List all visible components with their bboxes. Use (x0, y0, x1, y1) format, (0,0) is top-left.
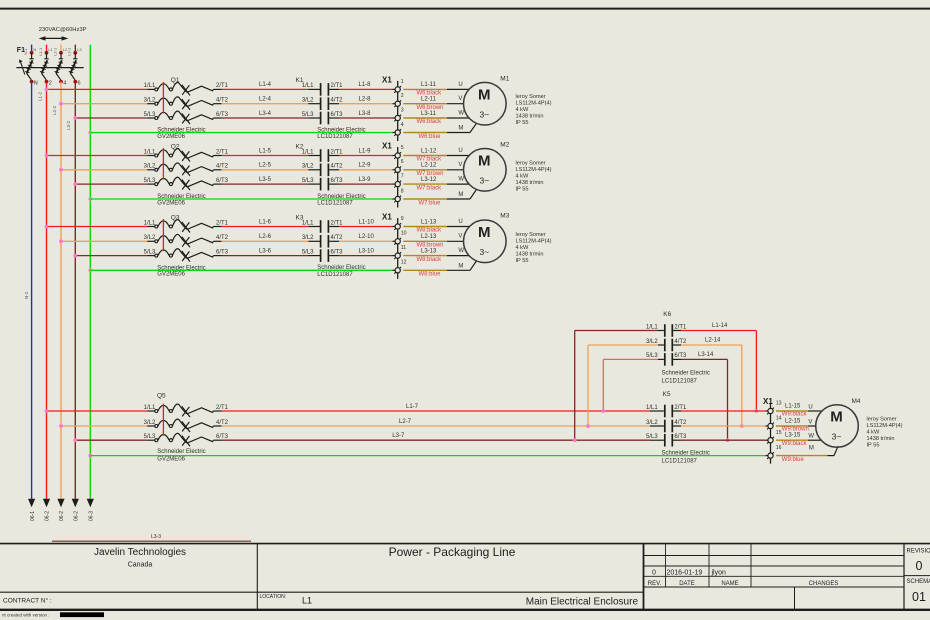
svg-text:2/T1: 2/T1 (674, 405, 687, 411)
svg-text:L1-12: L1-12 (421, 148, 437, 154)
svg-text:10: 10 (401, 231, 407, 237)
svg-text:U: U (458, 219, 462, 225)
svg-text:K1: K1 (296, 77, 304, 84)
wire tap L3 to Q5 (node) (73, 438, 154, 442)
svg-text:L3-5: L3-5 (259, 177, 272, 183)
svg-text:M: M (830, 409, 843, 426)
svg-text:M2: M2 (500, 142, 509, 149)
wire motor M4 PE (W9:blue) (776, 445, 838, 463)
wire L2-8 (329, 97, 395, 104)
circuit breaker Q5 (Schneider GV2ME06) (144, 392, 229, 462)
svg-text:3/L2: 3/L2 (302, 98, 314, 104)
svg-text:V: V (458, 96, 462, 102)
svg-text:3/L2: 3/L2 (144, 420, 156, 426)
svg-text:2: 2 (401, 93, 404, 99)
wire L2-9 (329, 163, 395, 170)
svg-text:L2-8: L2-8 (359, 97, 372, 103)
fused disconnect switch F1 (4-pole) (16, 45, 83, 87)
svg-text:4/T2: 4/T2 (216, 98, 229, 104)
svg-text:L3-2: L3-2 (66, 120, 71, 130)
svg-text:L1-10: L1-10 (359, 219, 375, 225)
svg-text:1438 tr/min: 1438 tr/min (516, 251, 544, 257)
terminal strip X1 (5-8) (382, 142, 404, 208)
svg-text:REVISION: REVISION (907, 549, 930, 555)
wire L3-15 to M4 (W9:black) (776, 434, 821, 447)
wire L1 bus (red, L1-2) (37, 82, 46, 499)
svg-text:L1: L1 (302, 596, 312, 606)
svg-text:GV2ME06: GV2ME06 (157, 200, 185, 206)
svg-text:14: 14 (776, 416, 782, 422)
svg-text:L2-10: L2-10 (359, 234, 375, 240)
svg-text:4/T2: 4/T2 (674, 339, 687, 345)
svg-text:1/L1: 1/L1 (144, 149, 156, 155)
wire tap L1 to Q1 (node) (45, 88, 155, 92)
motor M1 (Leroy Somer 4kW) (464, 76, 552, 127)
wire L1-14 (K6 output) (673, 323, 758, 413)
svg-text:4/T2: 4/T2 (216, 420, 229, 426)
wire motor PE (W6:blue) (403, 123, 476, 140)
svg-text:M3: M3 (500, 213, 509, 220)
svg-text:jlyon: jlyon (711, 570, 727, 577)
svg-text:X1: X1 (382, 213, 392, 222)
wire PE to terminal 4 (green) (88, 131, 395, 135)
wire L2-14 (K6 output) (673, 338, 744, 428)
svg-text:3/L2: 3/L2 (144, 235, 156, 241)
svg-text:4/T2: 4/T2 (331, 164, 344, 170)
svg-text:4: 4 (63, 81, 66, 87)
wire L2-11 (W6:brown) (403, 96, 463, 111)
contactor K5 (Schneider LC1D121087) (646, 391, 710, 465)
wires L1-7 / L2-7 / L3-7 (Q5 to K5) (222, 404, 664, 440)
svg-text:06-1: 06-1 (30, 511, 36, 521)
svg-text:M: M (458, 264, 463, 270)
svg-text:K3: K3 (296, 214, 304, 221)
wire L3 bus (maroon, L3-2) (66, 82, 75, 499)
wire K6 input pole1 from L3 (maroon) (573, 331, 664, 443)
svg-text:1/L1: 1/L1 (646, 324, 658, 330)
svg-text:Q3: Q3 (171, 214, 180, 221)
svg-text:16: 16 (776, 445, 782, 451)
svg-text:3~: 3~ (479, 109, 489, 119)
wire L1-13 (W8:black) (403, 219, 469, 234)
circuit breaker Q1 (Schneider GV2ME06) (144, 77, 229, 140)
svg-text:L1-13: L1-13 (421, 219, 437, 225)
terminal strip X1 (13-16) (763, 397, 782, 464)
svg-text:2/T1: 2/T1 (331, 83, 344, 89)
svg-text:1/L1: 1/L1 (144, 405, 156, 411)
svg-text:Canada: Canada (128, 562, 153, 569)
svg-text:Main Electrical Enclosure: Main Electrical Enclosure (526, 597, 639, 608)
svg-text:IP 55: IP 55 (516, 258, 529, 264)
svg-text:Schneider Electric: Schneider Electric (662, 370, 710, 376)
svg-text:2/T1: 2/T1 (216, 149, 229, 155)
wire tap L2 to Q5 (node) (59, 424, 155, 428)
svg-text:4/T2: 4/T2 (331, 235, 344, 241)
svg-text:GV2ME06: GV2ME06 (157, 457, 185, 463)
svg-text:X1: X1 (763, 397, 773, 406)
svg-text:1438 tr/min: 1438 tr/min (516, 180, 544, 186)
svg-text:8: 8 (401, 188, 404, 194)
svg-text:L3-8: L3-8 (359, 111, 372, 117)
svg-text:3/L2: 3/L2 (646, 339, 658, 345)
wire tap L2 to Q2 (node) (59, 168, 155, 172)
svg-text:leroy Somer: leroy Somer (516, 160, 546, 166)
svg-text:Q2: Q2 (171, 143, 180, 150)
svg-text:REV.: REV. (648, 581, 662, 587)
svg-text:LC1D121087: LC1D121087 (317, 201, 353, 207)
svg-text:5/L3: 5/L3 (144, 249, 156, 255)
svg-text:6/T3: 6/T3 (216, 249, 229, 255)
svg-text:1438 tr/min: 1438 tr/min (867, 436, 895, 442)
svg-text:M: M (478, 86, 491, 103)
svg-text:U: U (808, 404, 812, 410)
svg-text:1438 tr/min: 1438 tr/min (516, 114, 544, 120)
wire L3-11 (W6:black) (403, 110, 469, 125)
wire PE bus (green) (89, 45, 91, 499)
circuit breaker Q3 (Schneider GV2ME06) (144, 214, 229, 277)
svg-text:L2-12: L2-12 (421, 163, 437, 169)
wire L3-13 (W8:black) (403, 248, 469, 263)
svg-text:V: V (458, 234, 462, 240)
svg-text:LC1D121087: LC1D121087 (662, 458, 698, 464)
svg-text:LC1D121087: LC1D121087 (317, 134, 353, 140)
svg-text:nt created with version :: nt created with version : (2, 613, 50, 618)
svg-text:N-1: N-1 (23, 48, 28, 55)
svg-text:5/L3: 5/L3 (144, 112, 156, 118)
svg-text:L2-13: L2-13 (421, 234, 437, 240)
svg-text:W: W (458, 248, 464, 254)
svg-text:11: 11 (401, 245, 406, 251)
svg-text:W6:blue: W6:blue (419, 134, 442, 140)
svg-text:M: M (458, 192, 463, 198)
svg-text:4 kW: 4 kW (516, 173, 529, 179)
wire motor PE (W7:blue) (403, 189, 476, 206)
svg-text:1/L1: 1/L1 (144, 220, 156, 226)
svg-text:L2-15: L2-15 (785, 419, 801, 425)
svg-text:15: 15 (776, 430, 782, 436)
svg-text:5/L3: 5/L3 (144, 178, 156, 184)
svg-text:5/L3: 5/L3 (144, 434, 156, 440)
wire L2-4 (222, 97, 321, 104)
svg-text:leroy Somer: leroy Somer (867, 417, 897, 423)
svg-text:W8:black: W8:black (417, 228, 443, 234)
svg-text:N: N (34, 81, 38, 87)
svg-text:1/L1: 1/L1 (302, 220, 314, 226)
wire L3-8 (329, 111, 395, 118)
svg-text:1/L1: 1/L1 (302, 149, 314, 155)
svg-text:L3-9: L3-9 (359, 177, 372, 183)
svg-text:X1: X1 (382, 75, 392, 84)
svg-text:6/T3: 6/T3 (331, 112, 344, 118)
svg-text:L3-13: L3-13 (421, 248, 437, 254)
wire L3-4 (222, 111, 321, 118)
wire L3-15 (K5 to X1) (673, 433, 801, 441)
svg-text:L1-11: L1-11 (421, 82, 437, 88)
svg-text:4 kW: 4 kW (867, 430, 880, 436)
wire tap L3 to Q2 (node) (73, 182, 154, 186)
svg-text:W: W (808, 434, 814, 440)
svg-text:LC1D121087: LC1D121087 (662, 378, 698, 384)
svg-text:L2-5: L2-5 (259, 163, 272, 169)
wire K6 input pole3 from L1 (red) (601, 359, 664, 413)
svg-text:L3-3: L3-3 (151, 534, 161, 540)
svg-text:7: 7 (401, 174, 404, 180)
wire L1-6 (222, 219, 321, 226)
svg-text:L3-10: L3-10 (359, 248, 375, 254)
svg-text:LS112M-4P(4): LS112M-4P(4) (867, 423, 903, 429)
svg-text:N-2: N-2 (24, 291, 29, 299)
svg-text:2/T1: 2/T1 (216, 220, 229, 226)
svg-text:L1-14: L1-14 (712, 323, 728, 329)
svg-text:U: U (458, 82, 462, 88)
svg-text:6/T3: 6/T3 (674, 434, 687, 440)
svg-text:K6: K6 (663, 311, 671, 318)
svg-text:L2-7: L2-7 (399, 419, 412, 425)
svg-text:4/T2: 4/T2 (216, 235, 229, 241)
wire L2-13 (W8:brown) (403, 234, 463, 249)
svg-text:L1-2: L1-2 (37, 91, 42, 101)
svg-text:Q5: Q5 (157, 392, 166, 399)
svg-text:NAME: NAME (721, 581, 738, 587)
motor M4 (Leroy Somer 4kW) (816, 398, 903, 449)
svg-text:SCHEMATIC: SCHEMATIC (907, 579, 930, 585)
contactor K3 (Schneider LC1D121087) (296, 214, 366, 278)
svg-text:L2-9: L2-9 (359, 163, 372, 169)
svg-text:W: W (458, 110, 464, 116)
svg-text:U: U (458, 148, 462, 154)
svg-text:13: 13 (776, 401, 782, 407)
wire tap L2 to Q3 (node) (59, 239, 155, 243)
svg-text:Q1: Q1 (171, 77, 180, 84)
svg-text:6: 6 (78, 81, 81, 87)
contactor K2 (Schneider LC1D121087) (296, 143, 366, 206)
svg-text:L1-4: L1-4 (259, 82, 272, 88)
svg-text:6/T3: 6/T3 (331, 249, 344, 255)
svg-text:3/L2: 3/L2 (646, 420, 658, 426)
svg-text:L3-7: L3-7 (392, 433, 405, 439)
svg-text:3~: 3~ (832, 432, 842, 442)
svg-text:LC1D121087: LC1D121087 (317, 272, 353, 278)
svg-text:W8:blue: W8:blue (419, 272, 442, 278)
svg-text:X1: X1 (382, 142, 392, 151)
motor M3 (Leroy Somer 4kW) (464, 213, 552, 264)
wire L1-9 (329, 148, 395, 155)
svg-text:L3-6: L3-6 (259, 248, 272, 254)
svg-text:W: W (458, 177, 464, 183)
svg-text:5/L3: 5/L3 (646, 353, 658, 359)
svg-text:L2-2: L2-2 (52, 105, 57, 115)
svg-text:M: M (458, 126, 463, 132)
wire L1-15 (K5 to X1) (673, 404, 801, 412)
wire L1-10 (329, 219, 395, 226)
svg-text:6/T3: 6/T3 (331, 178, 344, 184)
svg-text:01: 01 (912, 590, 926, 604)
svg-text:4 kW: 4 kW (516, 107, 529, 113)
svg-text:9: 9 (401, 216, 404, 222)
svg-text:L2-6: L2-6 (259, 234, 272, 240)
contactor K1 (Schneider LC1D121087) (296, 77, 366, 140)
wire L2-15 (K5 to X1) (673, 419, 801, 427)
wire L1-5 (222, 148, 321, 155)
svg-text:K5: K5 (663, 391, 671, 398)
svg-text:W7:black: W7:black (417, 185, 443, 191)
wire L1-11 (W6:black) (403, 82, 469, 97)
wire L3-3 (bottom) (52, 534, 251, 541)
svg-text:2016-01-19: 2016-01-19 (667, 570, 703, 577)
svg-text:2/T1: 2/T1 (331, 149, 344, 155)
svg-text:1/L1: 1/L1 (302, 83, 314, 89)
wire L1-8 (329, 82, 395, 89)
wire L2-6 (222, 234, 321, 241)
svg-text:W7:blue: W7:blue (419, 200, 442, 206)
wire L3-9 (329, 177, 395, 184)
svg-text:N: N (33, 47, 36, 52)
svg-text:L1-5: L1-5 (259, 148, 272, 154)
svg-text:L2-11: L2-11 (421, 97, 437, 103)
svg-text:LS112M-4P(4): LS112M-4P(4) (516, 238, 552, 244)
svg-text:L3-1: L3-1 (67, 47, 72, 56)
svg-text:M4: M4 (852, 398, 861, 405)
svg-text:3: 3 (401, 107, 404, 113)
svg-text:CHANGES: CHANGES (809, 581, 839, 587)
wire tap L1 to Q2 (node) (45, 154, 155, 158)
wire PE to terminal 16 (green) (88, 454, 768, 458)
svg-text:2/T1: 2/T1 (216, 405, 229, 411)
terminal strip X1 (9-12) (382, 213, 407, 279)
wire L2-15 to M4 (W9:brown) (776, 419, 816, 432)
wire L1-4 (222, 82, 321, 89)
svg-text:2/T1: 2/T1 (674, 324, 687, 330)
svg-text:L1-15: L1-15 (785, 404, 801, 410)
svg-text:M1: M1 (500, 76, 509, 83)
svg-text:6/T3: 6/T3 (216, 178, 229, 184)
svg-text:W9:black: W9:black (782, 441, 808, 447)
svg-text:L3-11: L3-11 (421, 111, 437, 117)
svg-text:Power - Packaging Line: Power - Packaging Line (389, 545, 516, 559)
svg-text:0: 0 (652, 570, 656, 577)
wire N bus (blue, N-2) (24, 82, 32, 499)
wire L3-5 (222, 177, 321, 184)
svg-text:LOCATION:: LOCATION: (260, 594, 287, 600)
wire L3-6 (222, 248, 321, 255)
svg-text:4 kW: 4 kW (516, 245, 529, 251)
wire K6 input pole2 from L2 (orange) (586, 345, 664, 428)
svg-text:K2: K2 (296, 143, 304, 150)
wire L3-12 (W7:black) (403, 177, 469, 192)
wire L2 bus (orange, L2-2) (52, 82, 61, 499)
svg-text:6/T3: 6/T3 (674, 353, 687, 359)
svg-text:IP 55: IP 55 (516, 186, 529, 192)
svg-text:6/T3: 6/T3 (216, 112, 229, 118)
svg-text:4/T2: 4/T2 (674, 420, 687, 426)
wire tap L1 to Q5 (node) (45, 409, 155, 413)
svg-text:0: 0 (916, 559, 923, 573)
svg-text:L1-7: L1-7 (406, 404, 419, 410)
wire PE to terminal 12 (green) (88, 268, 395, 272)
svg-text:L2-4: L2-4 (259, 97, 272, 103)
svg-text:L3-4: L3-4 (259, 111, 272, 117)
svg-text:L3-15: L3-15 (785, 433, 801, 439)
svg-text:1/L1: 1/L1 (646, 405, 658, 411)
svg-text:LS112M-4P(4): LS112M-4P(4) (516, 167, 552, 173)
svg-text:12: 12 (401, 260, 407, 266)
svg-text:leroy Somer: leroy Somer (516, 232, 546, 238)
contactor K6 (Schneider LC1D121087) (646, 311, 710, 384)
svg-text:L1-8: L1-8 (359, 82, 372, 88)
svg-text:L2-14: L2-14 (705, 338, 721, 344)
svg-text:leroy Somer: leroy Somer (516, 94, 546, 100)
svg-text:V: V (808, 419, 812, 425)
svg-text:3/L2: 3/L2 (144, 98, 156, 104)
wire tap L1 to Q3 (node) (45, 225, 155, 229)
svg-text:IP 55: IP 55 (516, 120, 529, 126)
wire tap L3 to Q3 (node) (73, 254, 154, 258)
wire tap L3 to Q1 (node) (73, 116, 154, 120)
svg-text:06-2: 06-2 (74, 511, 80, 521)
svg-text:3/L2: 3/L2 (302, 164, 314, 170)
svg-text:3/L2: 3/L2 (144, 164, 156, 170)
svg-text:1/L1: 1/L1 (144, 83, 156, 89)
svg-text:5: 5 (401, 145, 404, 151)
svg-text:GV2ME06: GV2ME06 (157, 134, 185, 140)
svg-text:5/L3: 5/L3 (302, 249, 314, 255)
circuit breaker Q2 (Schneider GV2ME06) (144, 143, 229, 206)
svg-text:1: 1 (401, 79, 404, 85)
svg-text:3/L2: 3/L2 (302, 235, 314, 241)
wire L3-10 (329, 248, 395, 255)
svg-text:06-2: 06-2 (59, 511, 65, 521)
svg-text:4/T2: 4/T2 (216, 164, 229, 170)
svg-text:LS112M-4P(4): LS112M-4P(4) (516, 101, 552, 107)
svg-text:IP 55: IP 55 (867, 443, 880, 449)
wire L2-10 (329, 234, 395, 241)
svg-text:L1-6: L1-6 (259, 219, 272, 225)
svg-text:Schneider Electric: Schneider Electric (157, 449, 205, 455)
svg-text:GV2ME06: GV2ME06 (157, 272, 185, 278)
wire PE to terminal 8 (green) (88, 197, 395, 201)
wire L2-5 (222, 163, 321, 170)
off-page arrows 06-1 / 06-2 / 06-2 / 06-2 / 06-3 (28, 499, 95, 521)
svg-text:W6:black: W6:black (417, 119, 443, 125)
svg-text:L1-1: L1-1 (38, 47, 43, 56)
svg-text:CONTRACT N° :: CONTRACT N° : (3, 597, 52, 605)
svg-text:06-3: 06-3 (89, 511, 95, 521)
svg-text:230VAC@60Hz3P: 230VAC@60Hz3P (39, 27, 87, 33)
svg-text:V: V (458, 162, 462, 168)
svg-text:W8:black: W8:black (417, 257, 443, 263)
wire L1-12 (W7:black) (403, 148, 469, 163)
svg-text:6: 6 (401, 159, 404, 165)
svg-text:DATE: DATE (679, 581, 695, 587)
terminal strip X1 (1-4) (382, 75, 404, 141)
svg-text:6/T3: 6/T3 (216, 434, 229, 440)
wire motor PE (W8:blue) (403, 261, 476, 278)
svg-text:06-2: 06-2 (45, 511, 51, 521)
svg-text:Javelin Technologies: Javelin Technologies (94, 547, 186, 558)
svg-text:W9:black: W9:black (782, 412, 808, 418)
wire tap L2 to Q1 (node) (59, 102, 155, 106)
svg-text:5/L3: 5/L3 (302, 178, 314, 184)
supply label 230VAC@60Hz3P (39, 27, 87, 41)
svg-text:L3-12: L3-12 (421, 177, 437, 183)
svg-text:L3: L3 (77, 47, 82, 52)
svg-text:2/T1: 2/T1 (331, 220, 344, 226)
svg-text:M: M (478, 224, 491, 241)
svg-text:W9:brown: W9:brown (782, 427, 809, 433)
svg-text:M: M (478, 153, 491, 170)
svg-text:L1-9: L1-9 (359, 148, 372, 154)
wire L1-15 to M4 (W9:black) (776, 404, 822, 417)
